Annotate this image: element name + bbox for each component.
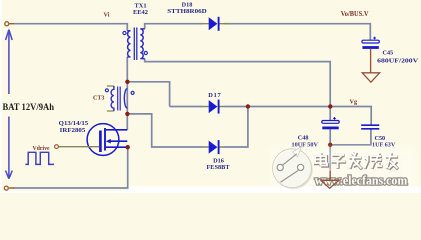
junction node (source) (126, 145, 130, 149)
Q source stub (105, 146, 127, 148)
C48 plus sign (333, 117, 336, 120)
svg-text:C48: C48 (298, 135, 309, 142)
CT3 core (118, 87, 121, 111)
svg-text:STTH8R06D: STTH8R06D (167, 8, 207, 15)
CT3 secondary dot (105, 89, 108, 92)
svg-text:Vg: Vg (350, 99, 358, 106)
C50 bottom plate (361, 128, 379, 130)
terminal bottom-left (4, 186, 8, 190)
wire C48 bottom to ground rail (330, 129, 371, 145)
junction node (Vg / C48 top) (328, 104, 332, 108)
D17 pins (203, 106, 224, 108)
ground stem (bottom) (329, 171, 331, 180)
TX1 secondary winding (140, 29, 144, 59)
svg-text:CT3: CT3 (93, 96, 104, 102)
Vdrive square wave (25, 152, 54, 164)
terminal stub bottom-left (9, 187, 14, 189)
wire branch drain to D16 (127, 114, 203, 147)
CT3 secondary winding (111, 86, 114, 111)
diode D18 (203, 17, 229, 31)
Q bulk stub (110, 140, 128, 142)
junction node (drain top branch) (125, 80, 129, 84)
TX1 secondary dot (144, 51, 147, 54)
Q gate bar (99, 131, 102, 153)
watermark chinese glyphs (315, 152, 398, 169)
D18 cathode bar (218, 17, 220, 31)
D16 anode triangle (209, 141, 218, 154)
C45 negative plate (362, 46, 378, 49)
CT3 primary dot (131, 91, 134, 94)
svg-text:Vo/BUS.V: Vo/BUS.V (341, 11, 369, 18)
wire D16 cathode up to D17 cathode (224, 107, 248, 148)
D18 anode triangle (209, 17, 218, 30)
svg-text:C45: C45 (383, 49, 394, 56)
TX1 core (134, 28, 137, 61)
svg-text:Q13/14/15: Q13/14/15 (59, 120, 88, 127)
D18 pins (203, 23, 229, 25)
svg-text:EE42: EE42 (133, 9, 148, 16)
capacitor C48 (322, 117, 339, 129)
terminal Vdrive (55, 145, 59, 149)
svg-text:Vi: Vi (104, 12, 110, 19)
D17 cathode bar (218, 100, 220, 114)
svg-text:D17: D17 (208, 92, 221, 99)
Q bulk arrow (106, 139, 111, 144)
Q channel bar (104, 128, 106, 151)
MOSFET Q13/14/15 (87, 124, 127, 156)
transformer TX1 (123, 28, 147, 61)
diode D17 (203, 100, 224, 114)
junction node (drain mid branch) (125, 112, 129, 116)
wire TX1 secondary bottom to C48 node (145, 59, 331, 121)
battery current arrow up (6, 30, 13, 94)
TX1 primary winding (127, 31, 130, 57)
svg-text:IRF2805: IRF2805 (60, 127, 86, 134)
C45 ground lead (370, 49, 372, 73)
svg-text:Vdrive: Vdrive (33, 146, 50, 152)
wire ground stem (329, 145, 331, 172)
diode D16 (203, 140, 224, 154)
wire D17 rail to Vg (170, 107, 372, 125)
svg-text:FES8BT: FES8BT (206, 164, 230, 171)
CT3 primary arc (124, 89, 127, 108)
wire bottom rail (13, 147, 128, 188)
C45 positive plate (362, 40, 379, 43)
bottom white margin (0, 191, 128, 193)
C45 plus sign (373, 37, 376, 40)
Q body circle (87, 124, 119, 156)
junction node (D17 cathode) (246, 104, 250, 108)
D16 pins (203, 146, 224, 148)
junction node (ground rail) (328, 143, 332, 147)
terminal stub top-left (9, 23, 14, 25)
capacitor C45 (362, 37, 379, 49)
wire branch to D17 anode (127, 82, 169, 107)
C50 top plate (361, 124, 379, 126)
svg-text:BAT 12V/9Ah: BAT 12V/9Ah (3, 102, 55, 113)
TX1 primary dot (123, 31, 126, 34)
C48 positive plate (322, 121, 339, 124)
current transformer CT3 (105, 86, 134, 111)
capacitor C50 (361, 125, 379, 129)
C48 negative plate (322, 127, 338, 130)
D16 cathode bar (218, 140, 220, 154)
svg-text:680UF/200V: 680UF/200V (377, 57, 419, 64)
battery current arrow down (6, 117, 13, 179)
ground (C45) (362, 73, 379, 82)
CT3 secondary pins (107, 86, 114, 111)
Q drain stub (105, 129, 127, 131)
wire TX1 primary down to MOSFET drain (126, 57, 128, 130)
wire TX1 secondary top to D18 (145, 24, 371, 40)
terminal top-left (5, 22, 9, 26)
left white margin (0, 0, 2, 193)
D17 anode triangle (209, 100, 218, 113)
Q gate wire (59, 146, 100, 148)
ground (bottom) (321, 180, 339, 188)
wire top-left rail (13, 24, 127, 31)
watermark logo (273, 147, 313, 190)
